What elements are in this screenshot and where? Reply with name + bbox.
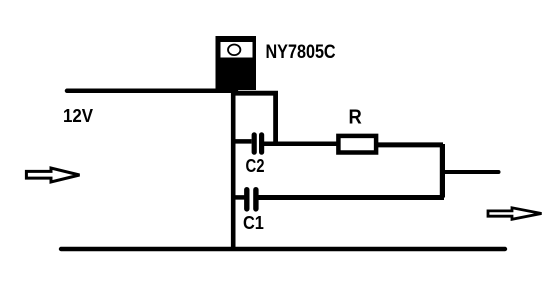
arrow output right: [488, 208, 542, 220]
svg-text:R: R: [349, 107, 362, 129]
regulator U1 mounting hole: [228, 45, 240, 56]
wire resistor to right corner: [376, 142, 443, 147]
capacitor C2 plate 2: [259, 135, 264, 152]
wire output lead of regulator: [233, 93, 276, 142]
svg-text:C1: C1: [243, 212, 264, 233]
wire bottom rail: [61, 247, 505, 251]
resistor R body: [338, 136, 376, 153]
wire C2 left stub: [233, 139, 252, 144]
regulator U1 body: [216, 36, 257, 90]
wire output stub: [444, 170, 499, 174]
capacitor C1 plate 1: [244, 190, 249, 209]
svg-text:12V: 12V: [63, 105, 93, 126]
wire C2 to resistor: [264, 142, 339, 147]
wire C1 right run: [259, 195, 445, 200]
svg-text:C2: C2: [246, 155, 265, 176]
arrow input left: [26, 168, 79, 182]
regulator U1 tab band: [221, 42, 253, 58]
wire C1 left stub: [233, 195, 245, 200]
svg-text:NY7805C: NY7805C: [265, 41, 335, 63]
wire ground lead vertical: [231, 88, 236, 249]
capacitor C1 plate 2: [253, 190, 258, 209]
wire input rail top: [67, 89, 236, 94]
wire right vertical: [440, 144, 445, 198]
capacitor C2 plate 1: [252, 135, 257, 152]
